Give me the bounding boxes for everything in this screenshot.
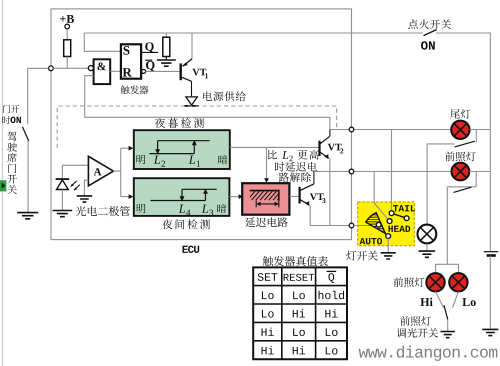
HEAD feed line bbox=[374, 172, 388, 220]
delay circuit box bbox=[242, 183, 289, 215]
contact HEAD bbox=[387, 219, 392, 224]
wire: night out to delay bbox=[229, 194, 243, 199]
ECU dashed boundary bbox=[57, 106, 336, 148]
light switch box (yellow) bbox=[358, 202, 415, 246]
green marker bbox=[0, 180, 6, 191]
wire: head feed y=171.5 bbox=[314, 171, 452, 173]
wire: AND lower input from tail line bbox=[85, 76, 350, 130]
contact wiper pivot bbox=[376, 222, 381, 227]
wiper feed bbox=[354, 225, 377, 227]
door switch blade bbox=[22, 127, 28, 141]
truth table bbox=[253, 267, 347, 359]
label: power supply bbox=[203, 91, 246, 101]
wire: ignition feed y=33.0 bbox=[84, 33, 490, 251]
ground (photodiode) bbox=[53, 211, 73, 217]
dimmer switch bbox=[436, 292, 459, 332]
battery bbox=[484, 252, 498, 330]
dusk detector box bbox=[134, 130, 230, 169]
wire: Qbar to VT1 base bbox=[146, 70, 180, 72]
headlamp (relay load) bbox=[452, 163, 470, 181]
truth table title bbox=[263, 256, 328, 266]
wiper (hatched sector) bbox=[364, 213, 387, 234]
Q output stub bbox=[141, 42, 158, 52]
node (head) bbox=[349, 169, 354, 174]
headlamp Lo bbox=[449, 273, 467, 291]
ground (dimmer) bbox=[440, 332, 455, 338]
wire node to AND gate bbox=[53, 67, 88, 69]
label: headlamp Hi/Lo bbox=[394, 277, 425, 287]
wire: S input feed bbox=[84, 33, 120, 51]
room lamp bbox=[418, 225, 437, 244]
contact right + link bbox=[394, 214, 409, 221]
contact AUTO bbox=[386, 234, 391, 239]
night detector box bbox=[134, 178, 230, 216]
transistor VT1 bbox=[181, 33, 208, 96]
label: delay circuit bbox=[245, 217, 288, 227]
wire: AND output to R bbox=[110, 70, 120, 72]
label: door open ON bbox=[2, 105, 21, 124]
dimmer feed split bbox=[436, 264, 459, 273]
wire: tail feed y=129.5 bbox=[354, 129, 451, 131]
photodiode D1 bbox=[56, 165, 89, 210]
ground (light switch) bbox=[381, 253, 396, 259]
wire: op-amp output split to detectors bbox=[113, 146, 133, 199]
wire: dusk out to VT2 base, branch to delay bbox=[230, 147, 319, 183]
+B terminal bbox=[60, 15, 74, 40]
node A (left edge junction) bbox=[49, 66, 54, 71]
label: photodiode bbox=[76, 206, 130, 216]
wire: VT3 emitter to auto node bbox=[310, 205, 349, 225]
flip-flop U1 (S-R) bbox=[121, 44, 141, 78]
Qbar output bubble bbox=[142, 60, 155, 73]
tail relay switch bbox=[427, 130, 476, 265]
wire AUTO contact to ground bbox=[387, 239, 389, 253]
ground (battery) bbox=[482, 329, 498, 335]
label: headlamp (relay) bbox=[445, 152, 476, 162]
op-amp A bbox=[88, 156, 113, 186]
wire room lamp to ground bbox=[426, 244, 428, 251]
label: ignition switch bbox=[408, 19, 451, 29]
resistor R2 (to ground) bbox=[163, 33, 170, 60]
label: headlamp dimmer switch bbox=[397, 316, 438, 338]
resistor R1 (+B pull-up) bbox=[64, 40, 71, 69]
headlamp Hi bbox=[426, 273, 444, 291]
wire: VT2 emitter down bbox=[329, 158, 331, 225]
node (auto/wiper) bbox=[349, 223, 354, 228]
AND gate U2 bbox=[88, 59, 110, 84]
transistor VT3 bbox=[289, 172, 325, 206]
TAIL feed line bbox=[391, 130, 393, 211]
label: night detection bbox=[162, 219, 210, 229]
wire tail lamp to rail bbox=[470, 129, 491, 131]
power supply arrow to ECU bbox=[184, 97, 198, 106]
tail lamp bbox=[451, 121, 469, 139]
ground (op-amp input) bbox=[84, 180, 88, 196]
labels TAIL HEAD AUTO bbox=[360, 205, 416, 244]
label: tail lamp bbox=[450, 109, 470, 118]
ground (room lamp) bbox=[419, 251, 436, 257]
left page border bbox=[2, 0, 4, 366]
wire head lamp to rail bbox=[469, 171, 490, 173]
outer solid box / +B rail bbox=[51, 9, 352, 240]
contact TAIL bbox=[389, 211, 394, 216]
labels bright/L4/L3/dark bbox=[137, 204, 227, 216]
node (tail) bbox=[349, 127, 354, 132]
label ECU bbox=[183, 246, 200, 253]
wire: door switch branch bbox=[28, 68, 49, 212]
label ON bbox=[421, 41, 435, 49]
ignition switch blade bbox=[424, 30, 437, 36]
label: flip-flop bbox=[121, 85, 149, 94]
ground (R2) bbox=[157, 60, 176, 66]
transistor VT2 bbox=[320, 130, 344, 159]
note: released when brighter than L2 bbox=[268, 150, 319, 182]
watermark bbox=[359, 346, 498, 361]
label: light switch bbox=[346, 251, 378, 261]
label: dusk detection bbox=[155, 118, 204, 128]
labels bright/L2/L1/dark bbox=[136, 155, 227, 167]
hysteresis curve (night) bbox=[150, 189, 216, 202]
ground (door switch) bbox=[17, 213, 38, 219]
hysteresis curve (dusk) bbox=[149, 140, 209, 154]
headlamp switch bbox=[447, 172, 476, 193]
